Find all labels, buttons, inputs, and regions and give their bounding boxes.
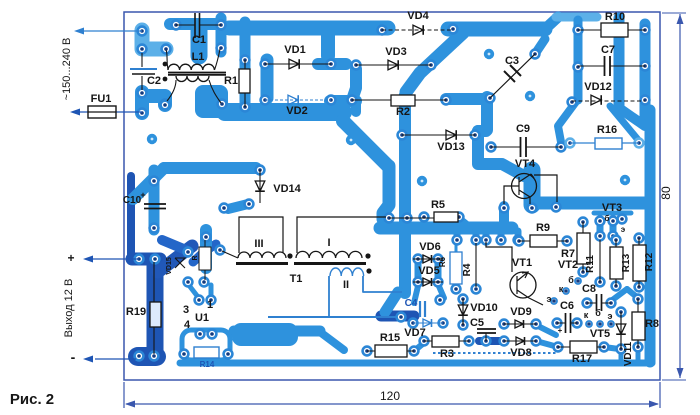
wire: R2 left stub [351,103,361,112]
svg-text:VD15: VD15 [166,257,173,275]
wire: stem to VD1 row [321,34,335,56]
svg-text:R15: R15 [380,332,400,344]
wire: VD8-R17 link [536,341,558,347]
node: VD1 pad left [261,60,270,69]
wire: dim right line [679,14,681,378]
node: VD2 pad right [327,96,336,105]
capacitor C1 lead [176,24,221,26]
label k VT2 [559,284,564,294]
node: VD14 pad top [256,166,265,175]
wire: R15-R3 link [414,342,425,351]
svg-text:+: + [558,326,563,335]
label C2 [147,75,161,87]
node: row pad a [453,236,462,245]
wire: dim bottom ext left [123,382,125,408]
capacitor C6 plates [566,313,571,333]
node: VD9 pad right [532,320,541,329]
wire: top bar to C1 [170,18,216,30]
wire: winding II lead bottom [268,316,397,318]
label 1 [207,299,213,311]
wire: U1 pin3 link [188,284,198,297]
label figure caption [10,391,54,408]
label T1 [290,273,303,285]
label mains voltage [61,38,73,101]
node: plus pad b [151,255,160,264]
node: mains pad a [138,27,147,36]
node: R12 pad top [635,234,644,243]
node: C8 pad left [583,299,592,308]
output plus lead [92,258,139,260]
label R14 [200,360,215,369]
label b VT5 [595,308,601,318]
diode VD14 lead [259,170,261,203]
label VD7 [404,327,425,339]
wire: long rail C [180,360,652,367]
svg-text:VD9: VD9 [510,306,531,318]
node: input pad e [138,109,147,118]
resistor R16 lead [570,142,639,144]
wire: C8 to R8 link 1 [611,289,627,301]
wire: vertical x654 [640,24,651,118]
svg-text:4: 4 [184,319,191,331]
wire: VT3 pin stub 1 [597,222,604,235]
svg-text:VD2: VD2 [286,105,307,117]
capacitor C2 plate bottom [132,73,155,75]
label 3 [183,304,189,316]
svg-text:R5: R5 [431,199,445,211]
wire: stub a [454,231,461,240]
node: VD4 pad left [378,26,387,35]
label VD12 [584,81,612,93]
node: VT5 small a [586,321,592,327]
node: VT3 pad 1a [596,217,605,226]
node: U1 small b [207,296,216,305]
node: VT2 small b [563,288,569,294]
resistor R13 lead [615,240,617,286]
label e VT3 [621,225,626,234]
wire: light rail top right [556,13,597,22]
svg-text:R4: R4 [462,263,473,276]
svg-text:VD3: VD3 [385,46,406,58]
node: small resistor pad bottom [200,278,209,287]
svg-text:VD11: VD11 [623,341,634,366]
label VD3 [385,46,406,58]
wire: R5 right stub [460,219,470,227]
wire: VD1 left stub [261,60,274,98]
node: R15 pad right [410,347,419,356]
svg-text:L1: L1 [192,51,205,63]
node: C7 pad left [574,63,583,72]
node: R9 pad left [515,237,524,246]
label C10 [123,195,142,206]
wire: C8 to R8 link 2 [627,289,638,298]
diode VD9 wire [504,323,536,325]
svg-text:R: R [192,255,199,260]
label VD15 [166,257,173,275]
node: R6 pad bottom [452,285,461,294]
svg-text:C5: C5 [470,317,484,329]
label R2 [396,106,410,118]
resistor R8 [632,312,645,340]
svg-text:э: э [608,311,613,321]
svg-text:R1: R1 [224,75,238,87]
wire: R16 diagonal [610,106,639,141]
label R11 [585,255,596,273]
node: R16 pad right [635,139,644,148]
node: C10 pad top [150,177,159,186]
svg-text:R19: R19 [126,306,146,318]
label k VT5 [584,310,589,320]
label VD14 [273,183,301,195]
svg-text:~150...240 В: ~150...240 В [61,38,73,101]
arrowhead plus [83,256,93,263]
label dim 120 [380,389,400,403]
node: U1 pad 3 [184,278,193,287]
label R6 [438,256,447,267]
node: VD1 pad right [327,60,336,69]
diode VD14 [255,181,265,191]
wire: X node diag 1 [158,246,192,272]
node: VT3 pad 3 [618,215,627,224]
svg-text:б: б [568,275,574,285]
svg-text:C2: C2 [147,75,161,87]
node: VD12 pad right [641,96,650,105]
resistor R15 lead [367,350,414,352]
svg-text:U1: U1 [195,312,209,324]
label VD9 [510,306,531,318]
label C4 [405,298,418,309]
node: R1 pad bottom [241,103,250,112]
node: L1 pad top [217,44,226,53]
label plus [67,251,74,265]
svg-text:R11: R11 [585,255,596,273]
svg-text:120: 120 [380,389,400,403]
label C7 [601,44,615,56]
wire: VT3 pin stub 2 [610,222,617,235]
node: R5 link pad [403,214,412,223]
svg-text:VD6: VD6 [419,241,440,253]
node: VD7 pad right [439,319,448,328]
svg-text:Рис. 2: Рис. 2 [10,391,54,408]
capacitor C3 wire [490,54,535,98]
svg-text:C4: C4 [405,298,418,309]
svg-text:R13: R13 [621,253,632,272]
node: VD2 pad left [261,96,270,105]
label R13 [621,253,632,272]
diode VD11 lead [620,312,622,349]
resistor R2 lead [352,99,446,101]
node: C9 pad left [487,143,496,152]
label VT1 [512,257,532,269]
wire: centre vertical V1 [383,166,389,219]
wire: VD11 to rail [619,349,624,361]
label R17 [572,353,592,365]
svg-text:VT2: VT2 [558,259,578,271]
svg-text:б: б [605,214,610,223]
resistor small near U1 [199,247,211,270]
resistor R15 [375,345,407,357]
svg-text:VT1: VT1 [512,257,532,269]
label U1 [195,312,209,324]
label VD4 [407,10,429,22]
node: mains pad c [162,45,171,54]
diode VD12 [591,95,601,105]
svg-text:-: - [71,349,76,365]
wire: winding II left lead [328,276,330,317]
transformer T1 winding I [296,217,386,258]
svg-text:C7: C7 [601,44,615,56]
wire: heavy bar at C4 [381,311,414,322]
node: R8 pad bottom [634,343,643,352]
node: VT3 pad 1b [596,232,605,241]
wire: left trace down 1 [147,262,164,350]
capacitor C2 wire [141,53,143,90]
resistor R14 inside U1 [194,347,219,358]
diode VD2 wire [265,99,331,101]
diode VD2 [288,95,298,105]
wire: R8 to rail [636,347,641,360]
node: band pad [552,203,561,212]
node: U1 pin c [180,350,189,359]
wire: mains arrow line top [83,30,142,32]
label output voltage [63,279,75,338]
label 4 [184,319,191,331]
transistor VT4 [504,174,557,205]
svg-text:R8: R8 [645,318,659,330]
node: minus pad b [150,352,159,361]
capacitor C3 plates [504,65,521,82]
node: VT2 small c [551,298,557,304]
resistor R7 lead [582,222,584,272]
node: VT4 pad a [500,204,509,213]
node: VD5 pad right [434,278,443,287]
node: VD14 pad bottom [245,200,254,209]
diode VD5 [423,278,432,286]
resistor R10 [601,23,628,37]
capacitor C7 plates [605,56,611,76]
wire: stub c [483,231,490,240]
node: row pad b [472,236,481,245]
label VT3 [602,202,622,214]
node: VT3 pad 2b [609,232,618,241]
diode VD13 [446,130,456,140]
resistor R17 lead [558,346,604,348]
output minus lead [95,358,136,360]
wire: VD1 right finger [318,58,346,70]
svg-text:I: I [327,237,330,249]
node: row pad c [482,236,491,245]
wire: X node diag 3 [193,252,204,262]
node: R5 pad left [420,213,429,222]
label R16 [597,124,617,136]
label C8 [582,283,596,295]
wire: R6 lead [455,244,458,286]
wire: thin band under VT3 [594,211,631,216]
node: R16 pad left [566,139,575,148]
node: plus pad a [135,255,144,264]
svg-text:II: II [343,279,349,291]
node: VD4 pad right [449,25,458,34]
label VD11 [623,341,634,366]
resistor R19 [150,302,161,327]
wire: elbow to VT4 [478,164,524,176]
capacitor C8 wire [587,302,611,304]
wire: rail jog up [545,17,558,29]
node: R7 pad top [579,218,588,227]
label e VT2 [547,294,552,304]
diode VD8 [516,337,525,345]
node: L1 pad bl [161,101,170,110]
wire: left border trace [127,176,135,258]
wire: VD14 bottom stub [228,204,248,209]
node: R13 pad top [612,236,621,245]
svg-text:VT3: VT3 [602,202,622,214]
capacitor C1 plates [195,13,200,38]
diode VD7 wire [413,322,443,324]
arrowhead dim bottom [677,368,684,378]
label FU1 [91,93,112,105]
label VT4 [515,158,536,170]
fuse FU1 lead [79,111,142,113]
svg-text:Выход 12 В: Выход 12 В [63,279,75,338]
svg-text:R17: R17 [572,353,592,365]
wire: R2 right band [446,93,487,105]
svg-text:R7: R7 [561,248,575,260]
wire: X node diag 4 [204,244,216,252]
wire: mains input flag trace [142,30,166,49]
wire: VD6-VD5 right link [435,261,442,281]
wire: VD9 to C6 link [536,325,556,335]
resistor R6 [450,252,462,284]
resistor R5 [434,212,458,222]
label R1 [224,75,238,87]
wire: long rail B [234,326,320,337]
resistor R4 lead [475,243,477,287]
node: mains pad b [138,45,147,54]
svg-text:1: 1 [207,299,213,311]
wire: vertical x578 [574,20,583,100]
diode VD15 [175,258,185,268]
node: winding II pad [397,313,406,322]
svg-text:R9: R9 [536,222,550,234]
resistor R7 [577,233,590,264]
svg-text:80: 80 [659,186,673,200]
label VD13 [437,141,465,153]
label R10 [605,11,625,23]
label R4 [462,263,473,276]
label L1 [192,51,205,63]
label R3 [440,348,454,360]
diode VD5 wire [413,281,443,283]
svg-text:VD14: VD14 [273,183,301,195]
arrowhead dim top [677,14,684,24]
diode VD3 [388,60,398,70]
node: VD10 pad top [459,295,468,304]
node: row pad d [497,236,506,245]
diode VD11 [616,324,626,334]
wire: bottom left corner blob [128,347,166,366]
capacitor C9 wire [491,146,561,148]
node: R10 pad left [574,26,583,35]
node: via centre [346,135,356,145]
label b VT2 [568,275,574,285]
wire: R1 column [240,22,251,108]
arrowhead dim left [125,401,135,408]
node: VD3 pad right [427,61,436,70]
resistor R9 [530,235,557,247]
wire: centre vertical V2 [399,95,411,293]
label C6 [560,300,574,312]
diode VD8 wire [504,340,536,342]
svg-text:VD13: VD13 [437,141,465,153]
transformer T1 core [236,262,366,265]
node: via C3 top [484,49,494,59]
diode VD10 lead [462,299,464,325]
node: VD10 pad bottom [459,321,468,330]
svg-text:C8: C8 [582,283,596,295]
diode VD4 wire [382,29,453,31]
wire: VD2-R2 pads bar [330,95,356,107]
label C5 [470,317,484,329]
node: R3 pad right [465,337,474,346]
capacitor C9 plates [521,137,527,157]
node: VD7 pad left [409,319,418,328]
node: C8 pad right [607,299,616,308]
node: R5 pad right [455,213,464,222]
label R5 [431,199,445,211]
svg-text:к: к [584,310,589,320]
node: T1 winding III pad [216,246,225,255]
wire: trace behind small resistor [200,230,212,268]
svg-text:VT4: VT4 [515,158,536,170]
capacitor C5 plates [477,329,496,333]
wire: corner down at C3 [481,97,493,130]
label R9 [536,222,550,234]
svg-text:R10: R10 [605,11,625,23]
svg-text:R3: R3 [440,348,454,360]
label R8 [645,318,659,330]
resistor R17 [570,341,597,353]
resistor R3 lead [424,340,469,342]
wire: corner left [478,125,486,137]
node: C6 pad left [553,319,562,328]
resistor R16 [595,138,622,149]
resistor R9 lead [519,240,567,242]
wire: stub e [515,231,522,240]
wire: rail B dip [320,332,344,350]
node: VT5 small c [608,321,614,327]
svg-text:б: б [595,308,601,318]
node: C3 pad top [531,50,540,59]
node: R7 pad bottom [579,268,588,277]
node: C7 pad right [641,62,650,71]
small resistor leads [204,240,206,280]
resistor R1 [239,69,250,93]
arrowhead dim right [649,401,659,408]
resistor R12 lead [638,238,640,287]
node: VD13 pad left [398,131,407,140]
resistor R3 [432,336,459,347]
node: via mid [417,176,427,186]
resistor R10 lead [578,29,645,31]
arrowhead minus [83,356,93,363]
wire: plus output bar [132,253,160,266]
node: VD8 pad left [500,337,509,346]
wire: rail B left blob [232,323,298,346]
node: stub pad [220,204,229,213]
node: VD12 pad left [568,98,577,107]
svg-text:C10: C10 [123,195,142,206]
